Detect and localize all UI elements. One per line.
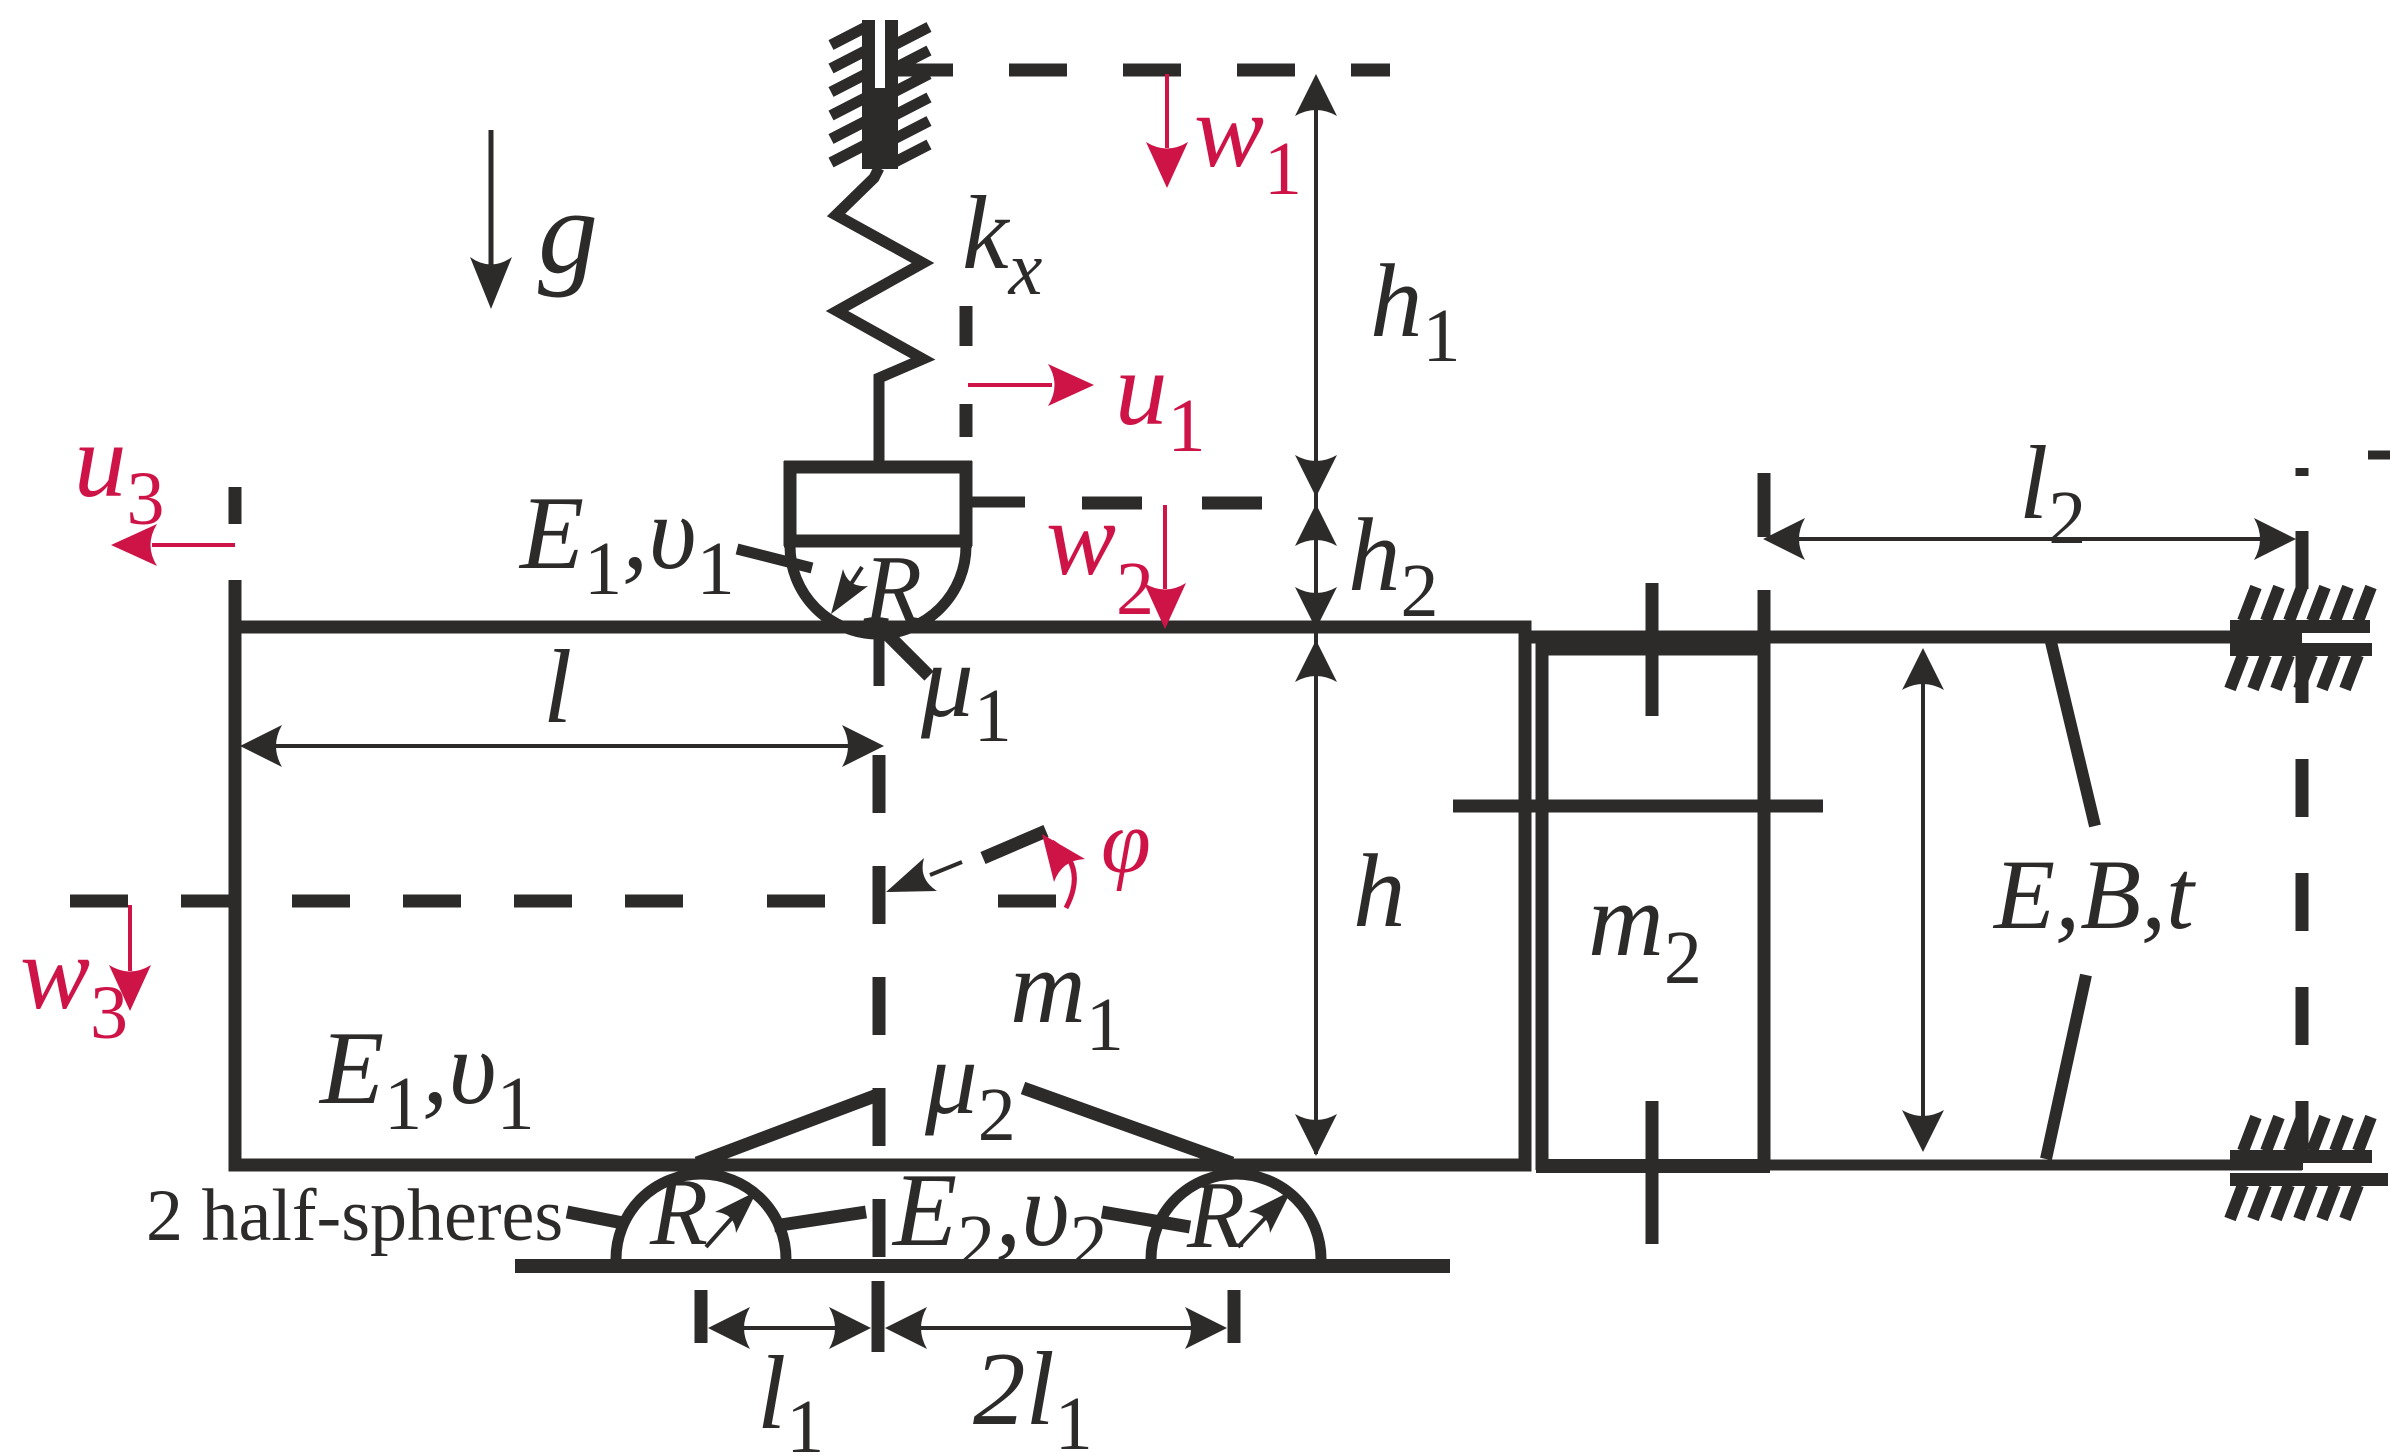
dashed reference line at indenter base level: [1082, 497, 1142, 510]
horizontal dashed centerline of m1: [70, 895, 683, 908]
vertical dashed reference at spring axis (u1 datum): [960, 306, 973, 346]
beam break mark upper: [2051, 642, 2095, 826]
gravity arrow g: [489, 130, 494, 272]
stub line from indenter right edge to dashed line: [966, 497, 1025, 508]
vertical dashed centerline of m1: [873, 755, 886, 1273]
svg-text:φ: φ: [1101, 793, 1151, 892]
arrow u1: [968, 383, 1052, 387]
upper right wall anchor: [2230, 587, 2372, 689]
arrow w2: [1163, 505, 1167, 589]
top horizontal dashed reference line: [895, 64, 1390, 77]
svg-text:2 half-spheres: 2 half-spheres: [146, 1175, 563, 1257]
svg-text:R: R: [1186, 1162, 1245, 1268]
ground line under half-spheres: [515, 1259, 1450, 1273]
right vertical dashed line at wall: [2296, 468, 2309, 476]
phi red arc arrow: [1052, 842, 1074, 908]
rotated centreline arrow at phi: [886, 858, 937, 892]
rotated centreline dash: [983, 831, 1046, 858]
svg-text:l: l: [543, 628, 572, 745]
dimension 2l1: [892, 1326, 1220, 1330]
label E2,v2 with leader dashes: [774, 1212, 866, 1226]
tick at sphere-2 centre: [1228, 1290, 1241, 1343]
mu2 leader right: [1023, 1088, 1232, 1163]
block m2 outline: [1536, 642, 1549, 1170]
arrow w1: [1165, 74, 1169, 148]
body m1 outline: [235, 627, 1525, 1165]
mu2 leader left: [697, 1094, 880, 1163]
svg-text:R: R: [649, 1159, 708, 1265]
dimension l: [252, 744, 874, 748]
beam height dimension arrow: [1921, 660, 1925, 1142]
half-sphere 2: [1151, 1174, 1321, 1259]
half-sphere 1: [616, 1174, 786, 1259]
m2 right edge extension dash: [1758, 473, 1771, 537]
m2 centreline ticks: [1646, 583, 1659, 716]
dimension line h1-h2-h: [1314, 78, 1318, 1154]
contact point marker mu1: [874, 636, 885, 686]
leader line from E1,v1 label to indenter: [737, 549, 812, 568]
tick at body centreline: [872, 1281, 885, 1352]
beam break mark lower: [2046, 975, 2086, 1159]
indenter mass block with half-sphere tip: [784, 461, 797, 546]
arrow u3: [152, 543, 235, 547]
tick at sphere-1 centre: [695, 1290, 708, 1343]
svg-text:E,B,t: E,B,t: [1992, 839, 2196, 950]
svg-text:g: g: [538, 165, 598, 298]
lower right wall anchor: [2230, 1117, 2388, 1219]
ticks above left edge (u3 datum): [229, 487, 242, 524]
dimension l2: [1777, 537, 2284, 541]
beam bottom line: [1770, 1160, 2302, 1171]
small corner dash top-right: [2368, 451, 2390, 460]
spring kx: [836, 168, 923, 464]
svg-text:h: h: [1353, 832, 1406, 949]
arrow w3: [128, 905, 132, 971]
top fixed-wall anchor for spring: [831, 20, 929, 169]
beam top line: [1525, 631, 2302, 644]
dimension l1: [714, 1326, 862, 1330]
